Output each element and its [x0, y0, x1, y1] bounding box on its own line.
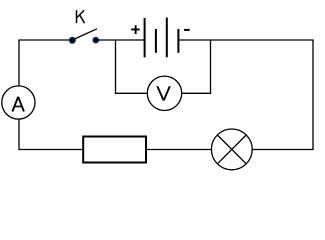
battery B1 positive long plate — [144, 18, 146, 57]
wire: left vertical below ammeter and bottom-left corner to resistor — [19, 119, 83, 149]
lamp L1 cross diagonal 1 — [217, 135, 246, 164]
label + (positive terminal) — [131, 25, 140, 34]
label - (negative terminal) — [184, 29, 190, 31]
battery B1 short plate 1 — [155, 29, 157, 53]
wire: battery to top-right corner and down right side — [178, 40, 313, 150]
wire: top-left corner (left vertical down to ammeter, horizontal to switch) — [19, 40, 69, 86]
wire: voltmeter branch left (down from top wire, right to voltmeter) — [116, 40, 148, 93]
battery B1 negative short plate — [177, 29, 179, 53]
wire: switch to battery positive plate — [96, 39, 145, 41]
wire: voltmeter branch right (right from voltmeter, up to top wire) — [182, 40, 211, 93]
switch K blade — [72, 29, 97, 40]
ammeter A circle — [2, 86, 35, 119]
wire: lamp to bottom-right corner — [252, 149, 313, 151]
label K — [77, 10, 85, 23]
voltmeter V letter — [156, 86, 171, 100]
lamp L1 circle — [211, 129, 252, 170]
battery B1 long plate 2 — [166, 18, 168, 58]
switch K right contact dot — [92, 37, 99, 44]
voltmeter V circle — [147, 76, 181, 110]
wire: resistor to lamp — [146, 149, 212, 151]
lamp L1 cross diagonal 2 — [217, 135, 246, 164]
ammeter A letter — [12, 97, 24, 112]
resistor R rectangle — [83, 137, 146, 163]
switch K left contact dot — [69, 37, 76, 44]
